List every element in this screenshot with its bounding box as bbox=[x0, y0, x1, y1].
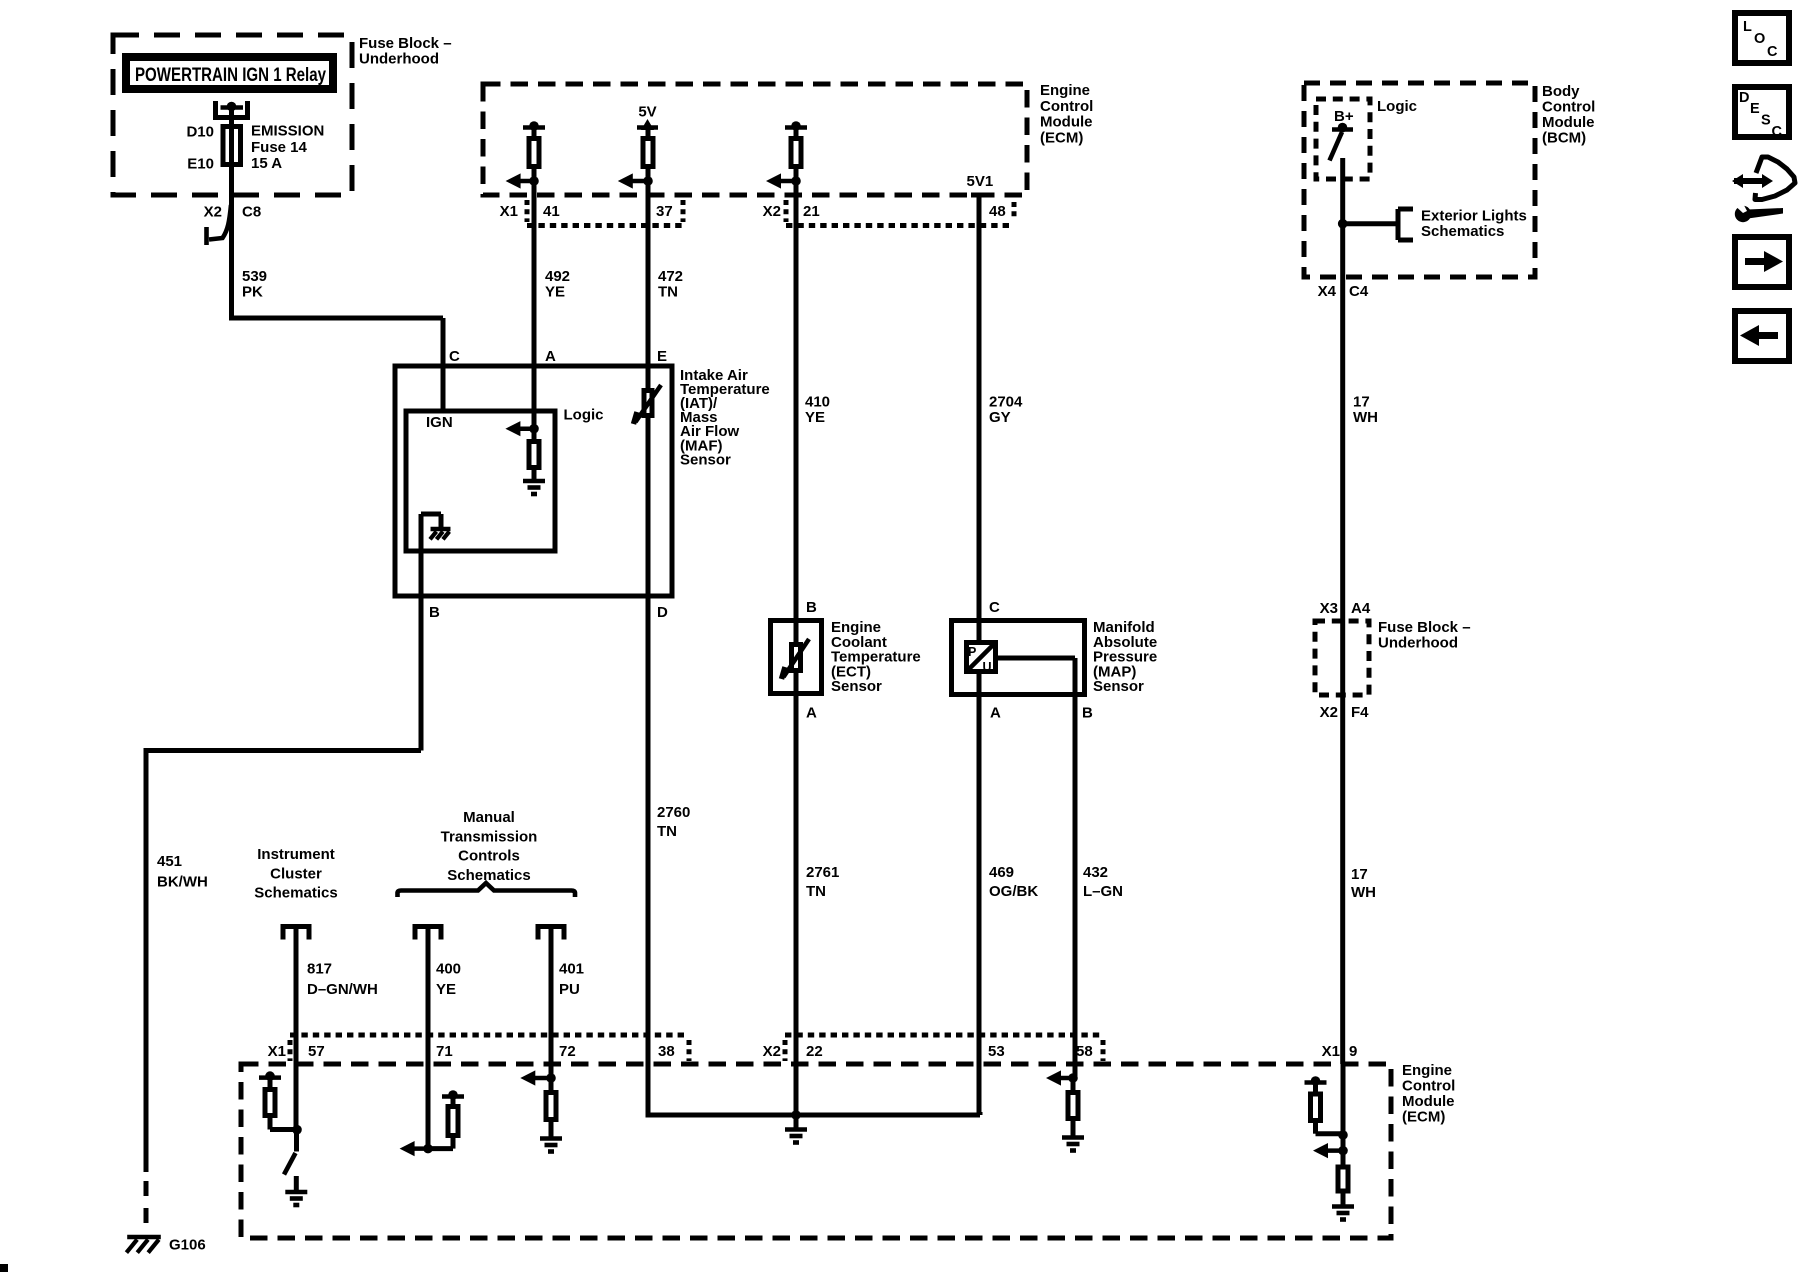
wire pin 37 internal bbox=[646, 169, 651, 195]
BCM box dashed bbox=[1304, 83, 1535, 277]
svg-text:Engine: Engine bbox=[1402, 1062, 1452, 1079]
svg-text:17: 17 bbox=[1351, 866, 1368, 883]
svg-text:71: 71 bbox=[436, 1043, 453, 1060]
fuse F14 clip (top bracket) bbox=[213, 101, 218, 118]
MAP transducer P/U symbol bbox=[967, 643, 996, 672]
node B+ supply bar bbox=[1332, 127, 1353, 132]
svg-text:OG/BK: OG/BK bbox=[989, 883, 1038, 900]
svg-text:Sensor: Sensor bbox=[831, 678, 882, 695]
off-page connector wire 400 bbox=[415, 924, 441, 929]
svg-text:492: 492 bbox=[545, 268, 570, 285]
resistor MAF logic bbox=[532, 429, 537, 442]
wire pin 71 resistor leg bbox=[451, 1138, 456, 1149]
current arrow pin 71 bbox=[412, 1146, 428, 1151]
off-page pointer Exterior Lights bbox=[1396, 209, 1401, 240]
connector X2 bottom dotted line bbox=[785, 1033, 1103, 1038]
svg-text:B: B bbox=[429, 604, 440, 621]
current arrow pin 72 bbox=[532, 1076, 551, 1081]
svg-text:Instrument: Instrument bbox=[257, 846, 335, 863]
current arrow pin 21 bbox=[778, 179, 796, 184]
svg-text:WH: WH bbox=[1351, 884, 1376, 901]
svg-text:B+: B+ bbox=[1334, 108, 1354, 125]
svg-text:YE: YE bbox=[545, 284, 565, 301]
svg-text:E: E bbox=[657, 348, 667, 365]
svg-text:TN: TN bbox=[658, 284, 678, 301]
svg-text:POWERTRAIN IGN 1 Relay: POWERTRAIN IGN 1 Relay bbox=[135, 65, 326, 86]
node 5V1 terminal bar bbox=[971, 193, 988, 198]
MAP sensor box bbox=[952, 621, 1085, 695]
svg-text:Manual: Manual bbox=[463, 809, 515, 826]
wire branch to exterior lights bbox=[1343, 221, 1396, 226]
svg-text:E10: E10 bbox=[187, 156, 214, 173]
svg-text:B: B bbox=[1082, 705, 1093, 722]
svg-text:5V1: 5V1 bbox=[967, 173, 994, 190]
svg-text:5V: 5V bbox=[638, 104, 656, 121]
svg-text:YE: YE bbox=[436, 981, 456, 998]
svg-text:P: P bbox=[968, 645, 976, 659]
ECT sensor box bbox=[771, 621, 822, 694]
svg-text:37: 37 bbox=[656, 203, 673, 220]
icon DESC box bbox=[1735, 87, 1789, 137]
wire ground bus pins 38 22 53 bbox=[646, 1113, 651, 1115]
ground pin 58 bbox=[1071, 1121, 1076, 1136]
wire 401 PU bbox=[549, 929, 554, 1078]
brace manual transmission group bbox=[398, 883, 576, 897]
connector X1 ticks and dotted line bbox=[525, 200, 530, 222]
svg-text:Schematics: Schematics bbox=[254, 885, 337, 902]
svg-text:451: 451 bbox=[157, 853, 182, 870]
switch B+ blade bbox=[1330, 132, 1343, 161]
wire 472 TN pin 37 to MAF E and pin 38 bbox=[646, 195, 651, 1115]
ECM bottom (dashed box) bbox=[241, 1064, 1391, 1238]
svg-text:Controls: Controls bbox=[458, 848, 520, 865]
svg-text:Fuse Block –: Fuse Block – bbox=[1378, 619, 1471, 636]
svg-text:S: S bbox=[1761, 113, 1771, 129]
MAF sensor outer box bbox=[395, 366, 672, 596]
svg-text:PU: PU bbox=[559, 981, 580, 998]
resistor ECM pin 9 pull-up bbox=[1305, 1080, 1327, 1085]
svg-text:E: E bbox=[1750, 101, 1760, 117]
svg-text:469: 469 bbox=[989, 864, 1014, 881]
svg-text:Logic: Logic bbox=[1377, 98, 1417, 115]
page artifact dot bbox=[0, 1264, 8, 1272]
svg-text:57: 57 bbox=[308, 1043, 325, 1060]
wire 817 D-GN/WH bbox=[294, 929, 299, 1130]
current arrow pin 58 bbox=[1058, 1076, 1073, 1081]
wire 492 YE pin 41 to MAF A bbox=[532, 195, 537, 440]
svg-text:Engine: Engine bbox=[1040, 82, 1090, 99]
svg-text:EMISSION: EMISSION bbox=[251, 123, 324, 140]
wire 17 WH from BCM logic bbox=[1340, 158, 1345, 1064]
svg-text:41: 41 bbox=[543, 203, 560, 220]
svg-text:A: A bbox=[806, 705, 817, 722]
svg-text:C4: C4 bbox=[1349, 283, 1369, 300]
svg-text:L: L bbox=[1743, 19, 1752, 35]
wire 451 BK/WH from MAF B bbox=[419, 551, 424, 751]
fuse EMISSION Fuse 14 15A (body) bbox=[229, 107, 234, 318]
svg-text:15 A: 15 A bbox=[251, 155, 282, 172]
svg-text:Underhood: Underhood bbox=[1378, 635, 1458, 652]
svg-text:Exterior Lights: Exterior Lights bbox=[1421, 208, 1527, 225]
svg-text:F4: F4 bbox=[1351, 704, 1369, 721]
svg-text:X1: X1 bbox=[1322, 1043, 1340, 1060]
fuse block underhood small box bbox=[1315, 621, 1369, 695]
svg-text:Sensor: Sensor bbox=[680, 451, 731, 468]
svg-text:D: D bbox=[657, 604, 668, 621]
svg-text:X4: X4 bbox=[1318, 283, 1337, 300]
svg-text:X2: X2 bbox=[763, 203, 781, 220]
node BCM branch junction bbox=[1338, 219, 1348, 229]
svg-text:2704: 2704 bbox=[989, 394, 1023, 411]
ground G106 bbox=[127, 1235, 161, 1239]
wire pin 9 resistor leg bbox=[1313, 1123, 1318, 1134]
current arrow MAF logic bbox=[517, 426, 534, 431]
wire pin C into MAF bbox=[441, 366, 446, 414]
icon LOC box bbox=[1735, 13, 1789, 63]
svg-text:Fuse Block –: Fuse Block – bbox=[359, 35, 452, 52]
svg-text:Transmission: Transmission bbox=[441, 828, 538, 845]
thermistor IAT element bbox=[644, 391, 652, 416]
svg-text:BK/WH: BK/WH bbox=[157, 874, 208, 891]
svg-text:WH: WH bbox=[1353, 409, 1378, 426]
svg-text:2760: 2760 bbox=[657, 804, 690, 821]
node 5V supply arrow bbox=[637, 125, 658, 130]
BCM logic box dashed bbox=[1316, 99, 1370, 179]
fuse block underhood (dashed box) bbox=[113, 35, 352, 195]
svg-text:Sensor: Sensor bbox=[1093, 678, 1144, 695]
svg-text:22: 22 bbox=[806, 1043, 823, 1060]
svg-text:Logic: Logic bbox=[564, 407, 604, 424]
svg-text:YE: YE bbox=[805, 409, 825, 426]
ECM top (dashed box) bbox=[483, 84, 1027, 195]
current arrow pin 9 bbox=[1325, 1148, 1343, 1153]
node fuse top terminal bbox=[221, 105, 244, 110]
svg-text:X1: X1 bbox=[268, 1043, 286, 1060]
svg-text:72: 72 bbox=[559, 1043, 576, 1060]
connector X2 bottom ticks bbox=[783, 1040, 788, 1061]
svg-text:A: A bbox=[545, 348, 556, 365]
svg-text:L–GN: L–GN bbox=[1083, 883, 1123, 900]
svg-text:401: 401 bbox=[559, 961, 584, 978]
svg-text:GY: GY bbox=[989, 409, 1011, 426]
wire 451 dashed segment to ground bbox=[144, 1181, 149, 1239]
svg-text:400: 400 bbox=[436, 961, 461, 978]
node 21 internal supply bar bbox=[785, 125, 807, 130]
svg-text:Underhood: Underhood bbox=[359, 51, 439, 68]
svg-text:TN: TN bbox=[806, 883, 826, 900]
svg-text:432: 432 bbox=[1083, 864, 1108, 881]
connector hook symbol bbox=[209, 205, 231, 240]
svg-text:21: 21 bbox=[803, 203, 820, 220]
off-page connector instrument cluster bbox=[283, 924, 309, 929]
switch ECM pin 57 bbox=[294, 1131, 299, 1152]
icon forward arrow box bbox=[1735, 237, 1789, 287]
svg-text:PK: PK bbox=[242, 284, 263, 301]
resistor ECM pin 71 bbox=[442, 1094, 464, 1099]
svg-text:Control: Control bbox=[1542, 99, 1595, 116]
svg-text:D10: D10 bbox=[186, 124, 214, 141]
svg-text:X2: X2 bbox=[763, 1043, 781, 1060]
connector X1 bottom ticks bbox=[288, 1040, 293, 1061]
resistor ECM pin 72 bbox=[549, 1078, 554, 1092]
svg-text:X1: X1 bbox=[500, 203, 518, 220]
resistor ECM pin 21 pull-up bbox=[794, 128, 799, 141]
node 41 internal supply bar bbox=[523, 125, 545, 130]
MAF logic box bbox=[406, 411, 555, 551]
wire pin 21 internal bbox=[794, 169, 799, 195]
wire 410 YE pin 21 to ECT B and pin 22 bbox=[794, 195, 799, 1115]
resistor ECM pin 9 lower bbox=[1341, 1151, 1346, 1166]
svg-text:IGN: IGN bbox=[426, 414, 453, 431]
svg-text:C: C bbox=[1772, 124, 1783, 140]
relay POWERTRAIN IGN 1 Relay (label box) bbox=[126, 57, 333, 89]
svg-text:9: 9 bbox=[1349, 1043, 1357, 1060]
svg-text:2761: 2761 bbox=[806, 864, 839, 881]
off-page connector wire 401 bbox=[538, 924, 564, 929]
svg-text:Module: Module bbox=[1542, 114, 1595, 131]
ground pin 9 bbox=[1341, 1194, 1346, 1206]
icon back arrow box bbox=[1735, 311, 1789, 361]
wire 539 PK horizontal bbox=[229, 316, 443, 321]
svg-text:D–GN/WH: D–GN/WH bbox=[307, 981, 378, 998]
svg-text:48: 48 bbox=[989, 203, 1006, 220]
svg-text:X2: X2 bbox=[204, 204, 222, 221]
ground pin 72 bbox=[549, 1122, 554, 1137]
svg-text:Module: Module bbox=[1402, 1093, 1455, 1110]
svg-text:Cluster: Cluster bbox=[270, 865, 322, 882]
icon schematic navigation squiggle bbox=[1741, 178, 1765, 184]
resistor ECM pin 57 pull-up bbox=[259, 1075, 281, 1080]
svg-text:410: 410 bbox=[805, 394, 830, 411]
svg-text:X2: X2 bbox=[1320, 704, 1338, 721]
svg-text:G106: G106 bbox=[169, 1237, 206, 1254]
svg-text:(BCM): (BCM) bbox=[1542, 130, 1586, 147]
svg-text:A4: A4 bbox=[1351, 600, 1371, 617]
svg-text:53: 53 bbox=[988, 1043, 1005, 1060]
svg-text:Body: Body bbox=[1542, 83, 1580, 100]
ground sensor-return bus bbox=[794, 1115, 799, 1128]
wire pin 41 internal bbox=[532, 169, 537, 195]
node pin 9 junction upper bbox=[1338, 1130, 1348, 1140]
svg-text:C: C bbox=[449, 348, 460, 365]
resistor ECM pin 41 pull-up bbox=[532, 128, 537, 141]
current arrow pin 37 bbox=[630, 179, 648, 184]
current arrow pin 41 bbox=[518, 179, 534, 184]
wire 400 YE bbox=[426, 929, 431, 1149]
svg-text:Control: Control bbox=[1402, 1078, 1455, 1095]
svg-text:17: 17 bbox=[1353, 394, 1370, 411]
wire 2704 GY 5V1 to MAP C and pin 53 bbox=[977, 195, 982, 1115]
svg-text:X3: X3 bbox=[1320, 600, 1338, 617]
wire pin 57 resistor leg bbox=[268, 1118, 273, 1130]
resistor ECM pin 58 bbox=[1071, 1078, 1076, 1092]
wire MAP output B bbox=[998, 656, 1075, 661]
connector X2 ticks and dotted line bbox=[784, 200, 789, 222]
svg-text:Schematics: Schematics bbox=[447, 867, 530, 884]
svg-text:U: U bbox=[983, 660, 992, 674]
svg-text:817: 817 bbox=[307, 961, 332, 978]
svg-text:Fuse 14: Fuse 14 bbox=[251, 139, 308, 156]
svg-text:(ECM): (ECM) bbox=[1040, 129, 1083, 146]
svg-text:C: C bbox=[989, 599, 1000, 616]
connector X1 bottom dotted line bbox=[290, 1033, 689, 1038]
svg-text:Schematics: Schematics bbox=[1421, 223, 1504, 240]
resistor ECM pin 37 pull-up bbox=[646, 128, 651, 141]
wire MAF logic ground leg bbox=[419, 514, 424, 553]
svg-text:C8: C8 bbox=[242, 204, 261, 221]
node pin 57 junction bbox=[292, 1125, 302, 1135]
svg-text:TN: TN bbox=[657, 823, 677, 840]
svg-text:Control: Control bbox=[1040, 98, 1093, 115]
ground MAF logic resistor bbox=[532, 470, 537, 481]
svg-text:Module: Module bbox=[1040, 114, 1093, 131]
thermistor ECT element bbox=[792, 645, 801, 671]
svg-text:38: 38 bbox=[658, 1043, 675, 1060]
svg-text:472: 472 bbox=[658, 268, 683, 285]
svg-text:(ECM): (ECM) bbox=[1402, 1109, 1445, 1126]
svg-text:O: O bbox=[1754, 31, 1765, 47]
ground pin 57 bbox=[294, 1176, 299, 1191]
svg-text:C: C bbox=[1767, 44, 1778, 60]
svg-text:539: 539 bbox=[242, 268, 267, 285]
svg-text:D: D bbox=[1739, 90, 1749, 106]
svg-text:A: A bbox=[990, 705, 1001, 722]
chassis ground MAF internal bbox=[431, 527, 451, 531]
node bus junction pin 22 bbox=[791, 1110, 801, 1120]
wire pin 9 internal bbox=[1341, 1064, 1346, 1151]
svg-text:58: 58 bbox=[1076, 1043, 1093, 1060]
svg-text:B: B bbox=[806, 599, 817, 616]
